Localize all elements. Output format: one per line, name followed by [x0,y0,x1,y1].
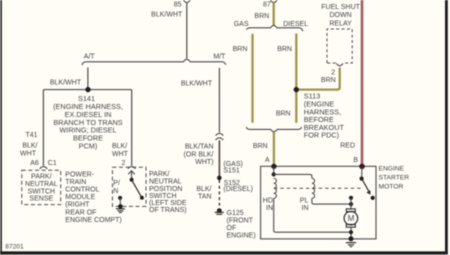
label PARK/NEUTRAL POSITION SWITCH [149,171,187,214]
svg-text:RELAY: RELAY [329,20,352,27]
wire BRN (GAS branch) [251,34,253,123]
wire T41 BLK/WHT to PCM [42,90,44,166]
hold-in coil return wire [274,198,351,232]
svg-text:C1: C1 [48,160,57,167]
svg-text:BRN: BRN [277,46,292,53]
splice S141 horizontal wire [43,89,131,91]
pull-in coil PL IN [312,178,315,198]
svg-text:P/: P/ [113,180,120,187]
svg-text:SENSE: SENSE [29,196,53,203]
svg-text:(DIESEL): (DIESEL) [223,186,253,193]
svg-text:ENGINE: ENGINE [379,166,405,173]
svg-text:G125: G125 [227,210,244,217]
svg-text:CONTROL: CONTROL [65,187,99,194]
label FUEL SHUT DOWN RELAY [321,4,360,27]
label G125 (FRONT OF ENGINE) [227,210,256,240]
wire BRN from pin 87 [273,3,275,26]
svg-text:BRN: BRN [321,77,336,84]
svg-text:OF TRANS): OF TRANS) [149,207,187,214]
switch ground dot [118,204,123,209]
svg-text:OF: OF [227,225,237,232]
node B dot [359,164,365,170]
svg-text:BRN: BRN [276,111,291,118]
node A dot [271,164,276,169]
svg-text:FUEL SHUT: FUEL SHUT [321,4,360,11]
svg-text:(RIGHT: (RIGHT [65,202,90,209]
fuel shut down relay dashed box [327,29,352,63]
starter ground symbol [346,242,356,244]
svg-text:T41: T41 [25,132,37,139]
svg-text:S151: S151 [223,168,239,175]
switch blade (open) [132,180,142,198]
wire BLK/WHT to park/neutral position switch [131,90,133,166]
svg-text:NEUTRAL: NEUTRAL [25,181,58,188]
svg-text:BLK/: BLK/ [22,142,37,149]
label PARK/NEUTRAL SWITCH SENSE [25,174,58,203]
label S141 text block [53,94,123,150]
svg-text:POWER-: POWER- [65,171,94,178]
svg-text:RED: RED [340,142,355,149]
svg-text:BLK/: BLK/ [112,143,127,150]
svg-text:ENGINE COMPT): ENGINE COMPT) [65,217,121,224]
svg-text:IN: IN [302,205,309,212]
option merge brace [246,127,301,132]
svg-text:SWITCH: SWITCH [149,193,177,200]
splice S141 junction dot [85,87,90,92]
svg-text:BLK/WHT: BLK/WHT [151,11,183,18]
splice S151/S152 dot [217,176,222,181]
svg-text:2: 2 [122,160,126,167]
svg-text:TRAIN: TRAIN [65,179,86,186]
wire A/T branch BLK/WHT [87,67,89,89]
svg-text:MODULE: MODULE [65,194,95,201]
svg-text:FOR PDC): FOR PDC) [304,131,339,140]
svg-text:BLK/TAN: BLK/TAN [185,144,214,151]
connector chevron at relay pin 2 [336,63,343,65]
svg-text:PARK/: PARK/ [149,171,170,178]
svg-text:2: 2 [331,70,335,77]
wire BLK/WHT from pin 85 [186,3,188,59]
solenoid switch lower contact dot [371,196,375,200]
solenoid switch top contact dot [360,177,364,181]
wire from A into solenoid [273,166,275,174]
ground G125 dot [217,208,222,213]
inline connector (two chevrons) [216,133,224,135]
svg-text:(FRONT: (FRONT [227,217,254,224]
svg-text:M/T: M/T [213,54,226,61]
svg-text:M: M [348,214,355,223]
svg-text:BLK/WHT: BLK/WHT [181,80,213,87]
svg-text:BRN: BRN [253,143,268,150]
svg-text:PL: PL [300,197,309,204]
hold-in coil HD IN [274,178,277,198]
engine starter motor box [261,166,376,239]
wire M/T branch BLK/WHT [218,68,220,133]
svg-text:WHT: WHT [112,151,129,158]
svg-text:N: N [113,188,118,195]
wire BRN from relay to splice S113 [297,68,340,90]
svg-text:87201: 87201 [5,243,24,250]
svg-text:WHT: WHT [20,151,37,158]
wire BRN (DIESEL branch) [295,34,297,123]
wire motor to ground [350,227,352,239]
svg-text:POSITION: POSITION [149,186,182,193]
connector chevron at switch pin 2 [128,166,136,168]
svg-text:DIESEL: DIESEL [283,21,308,28]
svg-text:ENGINE): ENGINE) [227,232,256,239]
svg-text:REAR OF: REAR OF [65,209,96,216]
wire BLK/TAN to splice S151/S152 [218,140,220,176]
connector chevron at PCM pin A6/C1 [40,167,48,169]
PCM park/neutral switch sense dashed box [22,170,61,204]
svg-text:PARK/: PARK/ [31,174,52,181]
option split brace A/T - M/T [82,59,226,65]
motor M1 bottom brush bar [346,224,355,227]
park/neutral position switch dashed box [112,167,146,206]
switch blade end dot [140,196,144,200]
option split brace GAS - DIESEL [247,25,303,31]
wire to pull-in coil [274,174,312,178]
mechanical linkage dashed [274,187,364,189]
svg-text:WHT): WHT) [195,159,213,166]
label POWERTRAIN CONTROL MODULE [65,171,121,224]
svg-text:BLK/: BLK/ [196,186,211,193]
svg-text:BRN: BRN [254,13,269,20]
svg-text:HD: HD [263,197,273,204]
svg-text:A6: A6 [30,160,39,167]
wire B to solenoid switch [361,166,363,178]
svg-text:PCM): PCM) [79,142,98,151]
svg-text:A: A [265,157,270,164]
ground G125 symbol [215,211,224,213]
svg-text:MOTOR: MOTOR [379,183,404,190]
svg-text:BLK/WHT: BLK/WHT [50,79,82,86]
switch ground symbol [116,208,125,210]
switch terminal arrow [128,171,135,175]
svg-text:B: B [353,157,358,164]
svg-text:IN: IN [266,205,273,212]
solenoid switch blade with arrowhead [362,179,369,192]
connector pin 87 (relay contact) [271,0,277,3]
svg-text:(LEFT SIDE: (LEFT SIDE [149,200,187,207]
connector pin 85 (relay coil) [184,0,190,3]
svg-text:A/T: A/T [84,54,96,61]
pull-in coil return wire [312,198,351,204]
svg-text:SWITCH: SWITCH [27,188,55,195]
svg-text:TAN: TAN [198,194,211,201]
label S113 text block [304,92,345,140]
dashed wire to ground G125 [218,180,220,206]
label ENGINE STARTER MOTOR [379,166,410,191]
svg-text:NEUTRAL: NEUTRAL [149,179,182,186]
starter ground dot [349,236,354,241]
svg-text:STARTER: STARTER [379,174,410,181]
wire BRN to starter point A [273,132,275,166]
svg-text:(OR BLK/: (OR BLK/ [184,151,214,158]
svg-text:85: 85 [174,1,182,8]
splice S113 junction dot [294,87,299,92]
pull-in return junction dot [349,202,353,206]
wire RED battery feed [361,0,364,166]
wire to switch ground [119,198,121,207]
motor M1 top brush bar [346,209,355,212]
svg-text:BRN: BRN [233,46,248,53]
switch common contact dot [130,178,134,182]
switch ground contact dot [118,196,122,200]
svg-text:87: 87 [263,2,271,9]
svg-text:GAS: GAS [234,21,249,28]
solenoid contact stub dot [349,196,353,200]
svg-text:DOWN: DOWN [330,12,352,19]
solenoid feed junction dot [272,172,276,176]
motor M1 body [344,211,358,225]
motor return junction dot [349,230,353,234]
wire to motor [350,198,352,209]
